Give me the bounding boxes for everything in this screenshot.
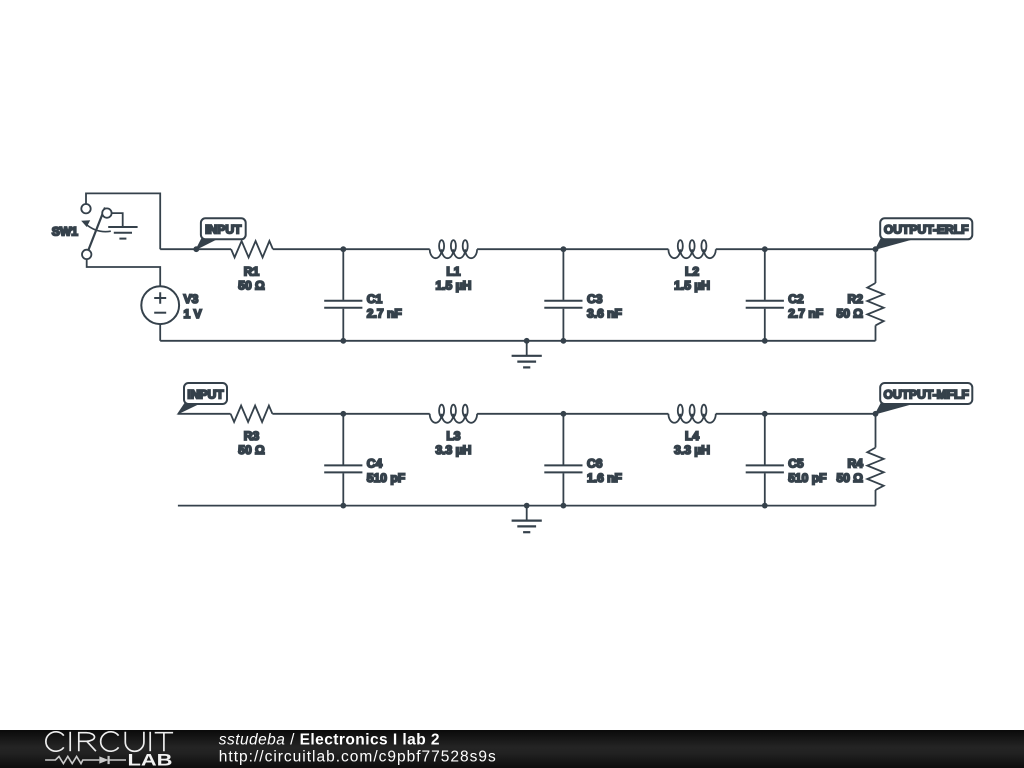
- resistor R4: [875, 414, 877, 448]
- svg-text:OUTPUT-MFLF: OUTPUT-MFLF: [884, 387, 969, 401]
- switch SW1: [81, 204, 111, 259]
- capacitor C2: [764, 249, 766, 300]
- inductor L1: [430, 249, 477, 258]
- svg-text:1.6 nF: 1.6 nF: [587, 471, 622, 485]
- wire L3-to-L4: [477, 413, 668, 415]
- capacitor C4: [342, 414, 344, 465]
- svg-text:http://circuitlab.com/c9pbf775: http://circuitlab.com/c9pbf77528s9s: [219, 749, 497, 766]
- svg-text:INPUT: INPUT: [187, 387, 224, 401]
- inductor L4: [668, 414, 715, 423]
- node C3 junctions: [561, 246, 567, 252]
- wire switch-to-V3: [87, 259, 161, 286]
- svg-text:LAB: LAB: [128, 751, 173, 768]
- wire input segment (bottom): [178, 413, 231, 415]
- flag INPUT (bottom): [178, 403, 200, 414]
- svg-text:1.5 µH: 1.5 µH: [674, 278, 710, 292]
- svg-text:2.7 nF: 2.7 nF: [367, 307, 402, 321]
- svg-text:C5: C5: [788, 456, 804, 470]
- flag OUTPUT-MFLF: [876, 403, 915, 414]
- svg-text:OUTPUT-ERLF: OUTPUT-ERLF: [884, 223, 969, 237]
- ground (bottom circuit): [526, 506, 528, 521]
- wire V3-bottom: [159, 324, 161, 341]
- voltage source V3: [141, 286, 179, 324]
- wire L1-to-L2: [477, 248, 668, 250]
- svg-text:3.6 nF: 3.6 nF: [587, 307, 622, 321]
- logo CIRCUIT: [46, 732, 173, 751]
- svg-text:C4: C4: [367, 456, 383, 470]
- svg-text:L2: L2: [685, 264, 699, 278]
- capacitor C6: [562, 414, 564, 465]
- svg-text:L4: L4: [685, 429, 699, 443]
- svg-text:510 pF: 510 pF: [788, 471, 826, 485]
- svg-text:2.7 nF: 2.7 nF: [788, 307, 823, 321]
- svg-text:C2: C2: [788, 292, 804, 306]
- resistor R3: [231, 406, 273, 422]
- logo resistor-diode: [45, 756, 126, 764]
- resistor R1: [231, 241, 273, 257]
- svg-text:50 Ω: 50 Ω: [238, 443, 265, 457]
- svg-text:1.5 µH: 1.5 µH: [435, 278, 471, 292]
- svg-text:510 pF: 510 pF: [367, 471, 405, 485]
- svg-text:C1: C1: [367, 292, 383, 306]
- capacitor C1: [342, 249, 344, 300]
- footer bar: [0, 730, 1024, 768]
- svg-text:R2: R2: [848, 292, 864, 306]
- wire input segment: [160, 248, 231, 250]
- wire L2-to-output: [716, 248, 876, 250]
- svg-text:50 Ω: 50 Ω: [238, 278, 265, 292]
- capacitor C3: [562, 249, 564, 300]
- node OUTPUT-ERLF: [873, 246, 879, 252]
- node INPUT (top): [193, 246, 199, 252]
- wire switch-top: [86, 193, 160, 249]
- wire R1-to-L1: [273, 248, 430, 250]
- svg-text:L3: L3: [446, 429, 460, 443]
- inductor L2: [668, 249, 715, 258]
- svg-text:sstudeba / Electronics I lab 2: sstudeba / Electronics I lab 2: [219, 731, 440, 748]
- node ground junction (bottom): [524, 503, 530, 509]
- capacitor C5: [764, 414, 766, 465]
- svg-text:R4: R4: [848, 456, 864, 470]
- svg-text:3.3 µH: 3.3 µH: [674, 443, 710, 457]
- svg-text:R3: R3: [244, 429, 260, 443]
- wire switch-pivot: [112, 213, 123, 227]
- svg-text:3.3 µH: 3.3 µH: [435, 443, 471, 457]
- flag INPUT (top): [196, 239, 217, 250]
- node OUTPUT-MFLF: [873, 411, 879, 417]
- wire bottom rail (bottom circuit): [178, 505, 876, 507]
- svg-text:L1: L1: [446, 264, 460, 278]
- svg-text:1 V: 1 V: [184, 307, 202, 321]
- node C2 junctions: [762, 246, 768, 252]
- inductor L3: [430, 414, 477, 423]
- node C6 junctions: [561, 411, 567, 417]
- node C4 junctions: [340, 411, 346, 417]
- node C1 junctions: [340, 246, 346, 252]
- resistor R2: [875, 249, 877, 283]
- flag OUTPUT-ERLF: [876, 239, 915, 250]
- svg-text:50 Ω: 50 Ω: [836, 307, 863, 321]
- ground (switch): [108, 226, 137, 228]
- ground (top circuit): [526, 341, 528, 356]
- svg-text:C3: C3: [587, 292, 603, 306]
- svg-text:R1: R1: [244, 264, 260, 278]
- svg-text:50 Ω: 50 Ω: [836, 471, 863, 485]
- svg-text:SW1: SW1: [52, 224, 78, 238]
- svg-text:C6: C6: [587, 456, 603, 470]
- wire L4-to-output: [716, 413, 876, 415]
- node ground junction: [524, 338, 530, 344]
- svg-text:INPUT: INPUT: [205, 223, 242, 237]
- svg-text:V3: V3: [184, 292, 199, 306]
- wire bottom rail (top circuit): [160, 340, 875, 342]
- node C5 junctions: [762, 411, 768, 417]
- wire R3-to-L3: [272, 413, 429, 415]
